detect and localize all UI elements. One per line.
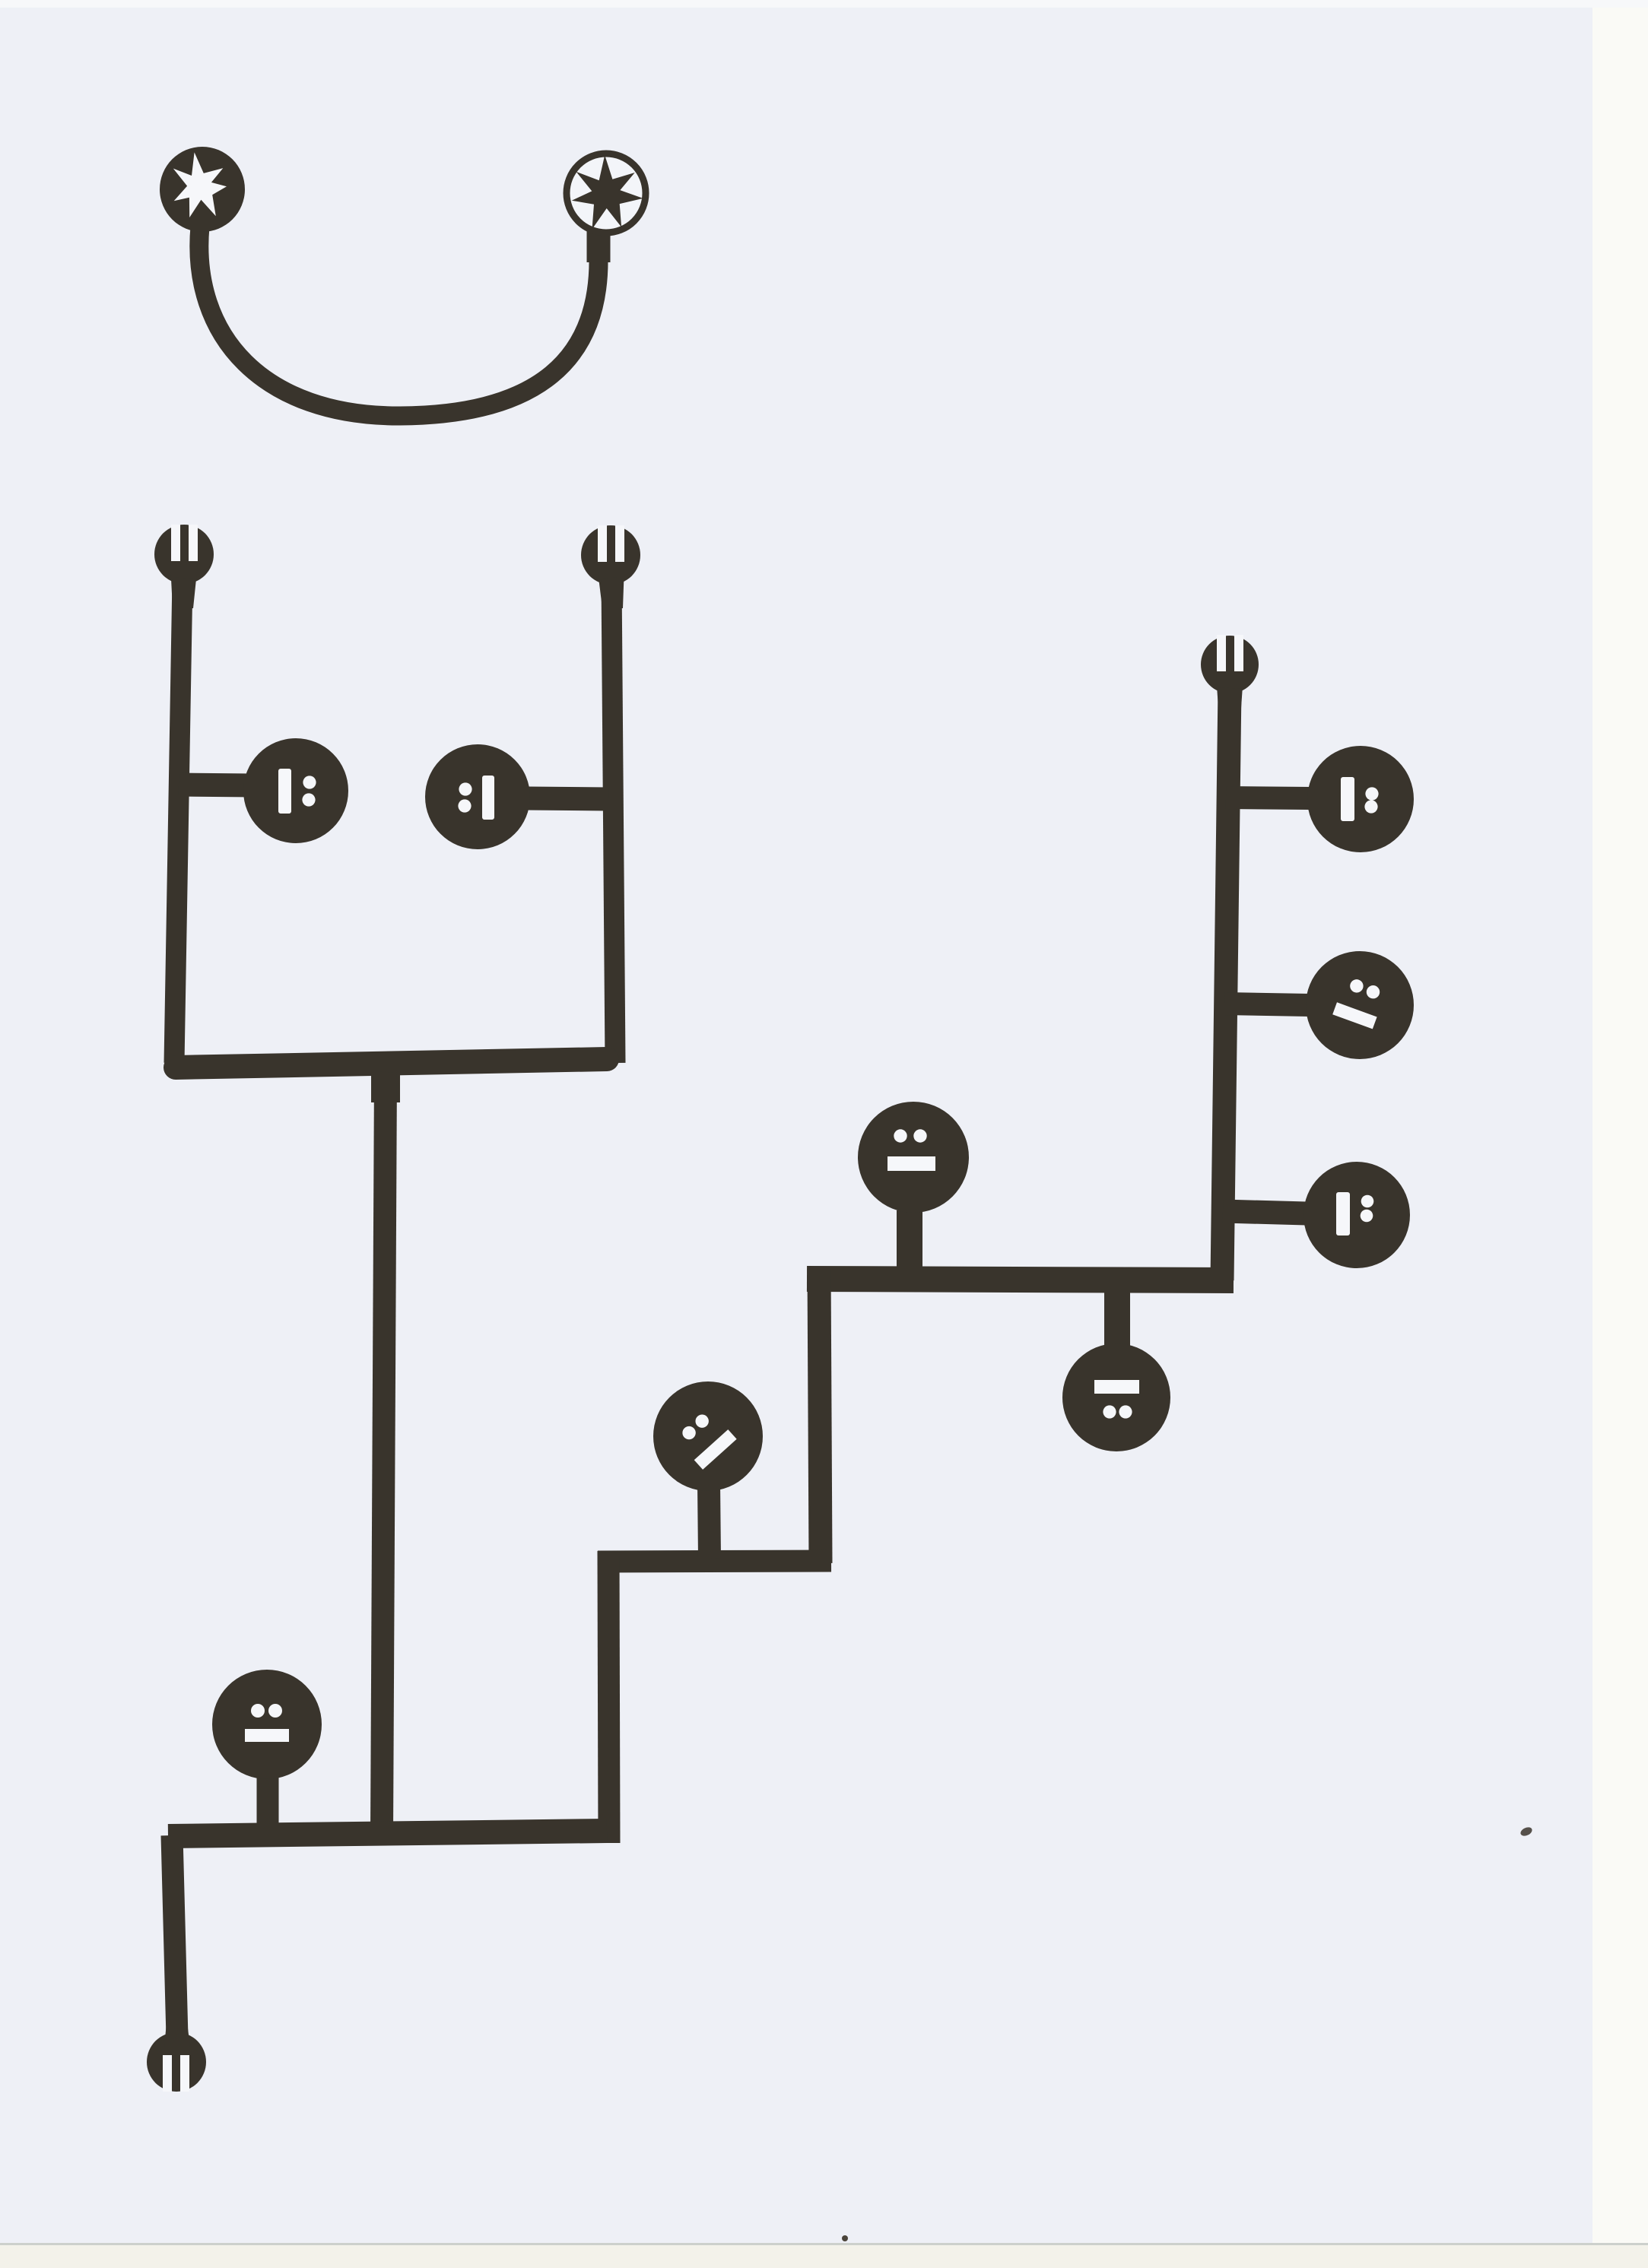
node R5 [858, 1102, 969, 1213]
stem wire to R4 [1104, 1289, 1130, 1353]
wire V4 [819, 1267, 821, 1563]
node R7 [212, 1670, 322, 1779]
smile wire [199, 227, 599, 416]
wire bucket bottom [176, 1059, 607, 1067]
right lamp stem wire [587, 227, 611, 262]
wire H3 [168, 1831, 607, 1836]
wire H1 [807, 1279, 1234, 1280]
scanner bed right strip [1592, 0, 1648, 2268]
stub wire S3 [1223, 1211, 1307, 1213]
main descending wire [371, 1064, 400, 1102]
paper bottom strip [0, 2243, 1648, 2245]
node C2 [425, 744, 530, 849]
node R2 [1306, 951, 1414, 1059]
terminal T1 [154, 525, 214, 608]
wire V5 [172, 1835, 177, 2038]
terminal T3 [1201, 635, 1259, 718]
terminal T4 (inverted) [147, 2022, 206, 2092]
stub wire to C2 [526, 798, 608, 799]
wire V4b [608, 1551, 609, 1843]
terminal T2 [581, 525, 640, 608]
stub wire S2 [1224, 1004, 1310, 1005]
node R1 [1307, 746, 1414, 852]
node R4 [1062, 1343, 1170, 1451]
speck 1 [842, 2235, 848, 2241]
wire V3 [1222, 688, 1230, 1280]
wire V1 [174, 578, 183, 1063]
stem wire to R5 [897, 1210, 922, 1271]
wire H2 [598, 1561, 831, 1562]
wire V2 [611, 578, 615, 1063]
stem wire to R7 [257, 1778, 279, 1831]
stem wire to R6 [709, 1483, 710, 1559]
lamp E1 (left star eye) [160, 147, 245, 232]
stub wire to C1 [179, 785, 255, 785]
node R6 [653, 1381, 763, 1491]
node C1 [243, 738, 348, 843]
lamp E2 (right star eye) [567, 154, 646, 233]
speck 2 [1519, 1826, 1534, 1838]
paper top edge band [0, 0, 1648, 8]
stub wire S1 [1226, 798, 1310, 798]
node R3 [1303, 1162, 1410, 1268]
